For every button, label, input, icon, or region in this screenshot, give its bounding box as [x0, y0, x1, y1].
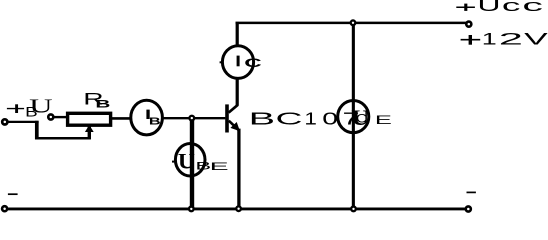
label +Ucc plus sign	[456, 6, 475, 8]
voltmeter UBE left polarity nub	[172, 161, 174, 163]
wire base horizontal	[161, 117, 225, 119]
junction bottom rail / UBE	[189, 207, 194, 212]
wire bottom rail	[6, 207, 466, 210]
label minus bottom right	[467, 191, 476, 193]
svg-text:c: c	[522, 0, 543, 15]
svg-text:0: 0	[322, 109, 338, 129]
svg-text:C: C	[244, 56, 262, 70]
svg-text:1: 1	[482, 31, 497, 49]
transistor Q1 emitter arrowhead	[230, 122, 240, 131]
transistor Q1 emitter lead	[229, 121, 239, 131]
svg-text:V: V	[524, 31, 548, 49]
wire collector lower segment	[236, 78, 239, 105]
svg-text:1: 1	[304, 109, 317, 129]
svg-text:B: B	[95, 98, 111, 110]
wire potentiometer wiper stem	[88, 122, 91, 139]
ammeter IC left polarity nub	[220, 61, 223, 63]
ammeter IC circle	[222, 46, 253, 79]
svg-text:c: c	[502, 0, 521, 15]
junction bottom rail / UCE	[351, 207, 356, 212]
wire RB right to ammeter IB	[111, 117, 132, 120]
wire UCE branch vertical	[352, 23, 355, 209]
wire emitter vertical	[237, 129, 240, 209]
svg-text:C: C	[276, 109, 303, 129]
potentiometer wiper arrowhead	[85, 125, 94, 132]
wire bend vertical	[35, 121, 39, 140]
terminal bottom left	[2, 206, 7, 211]
svg-text:E: E	[210, 161, 229, 173]
junction top rail / UCE	[351, 20, 356, 25]
svg-text:C: C	[356, 112, 367, 126]
svg-text:U: U	[478, 0, 501, 15]
svg-text:2: 2	[499, 31, 523, 49]
svg-text:U: U	[178, 148, 195, 173]
label +12V plus sign	[461, 39, 481, 41]
label +UB plus sign	[7, 108, 24, 110]
ammeter IB circle	[131, 100, 163, 135]
voltmeter UCE circle	[338, 101, 369, 133]
junction bottom rail / emitter	[236, 206, 241, 211]
resistor RB potentiometer body	[68, 113, 111, 125]
terminal +Ucc top right	[466, 22, 471, 27]
wire top rail	[236, 22, 467, 25]
label minus bottom left	[8, 193, 18, 195]
wire collector upper segment	[236, 22, 239, 47]
junction base / UBE	[189, 116, 194, 121]
voltmeter UBE circle	[175, 144, 205, 177]
svg-text:B: B	[249, 109, 275, 129]
transistor Q1 base bar	[225, 104, 229, 132]
wire lower horizontal to wiper	[35, 137, 91, 140]
terminal jack1 +UB input	[2, 119, 7, 124]
terminal jack2 RB left	[48, 114, 53, 119]
label I of IB	[146, 110, 149, 119]
wire jack1 horizontal to bend	[8, 121, 39, 123]
svg-text:E: E	[375, 113, 392, 127]
label I of IC	[237, 56, 240, 67]
wire jack2 to RB left	[54, 116, 68, 118]
transistor Q1 collector lead	[229, 105, 238, 113]
terminal bottom right	[466, 206, 471, 211]
svg-text:B: B	[149, 117, 161, 128]
svg-text:B: B	[25, 104, 38, 120]
wire UBE branch vertical	[190, 118, 194, 209]
